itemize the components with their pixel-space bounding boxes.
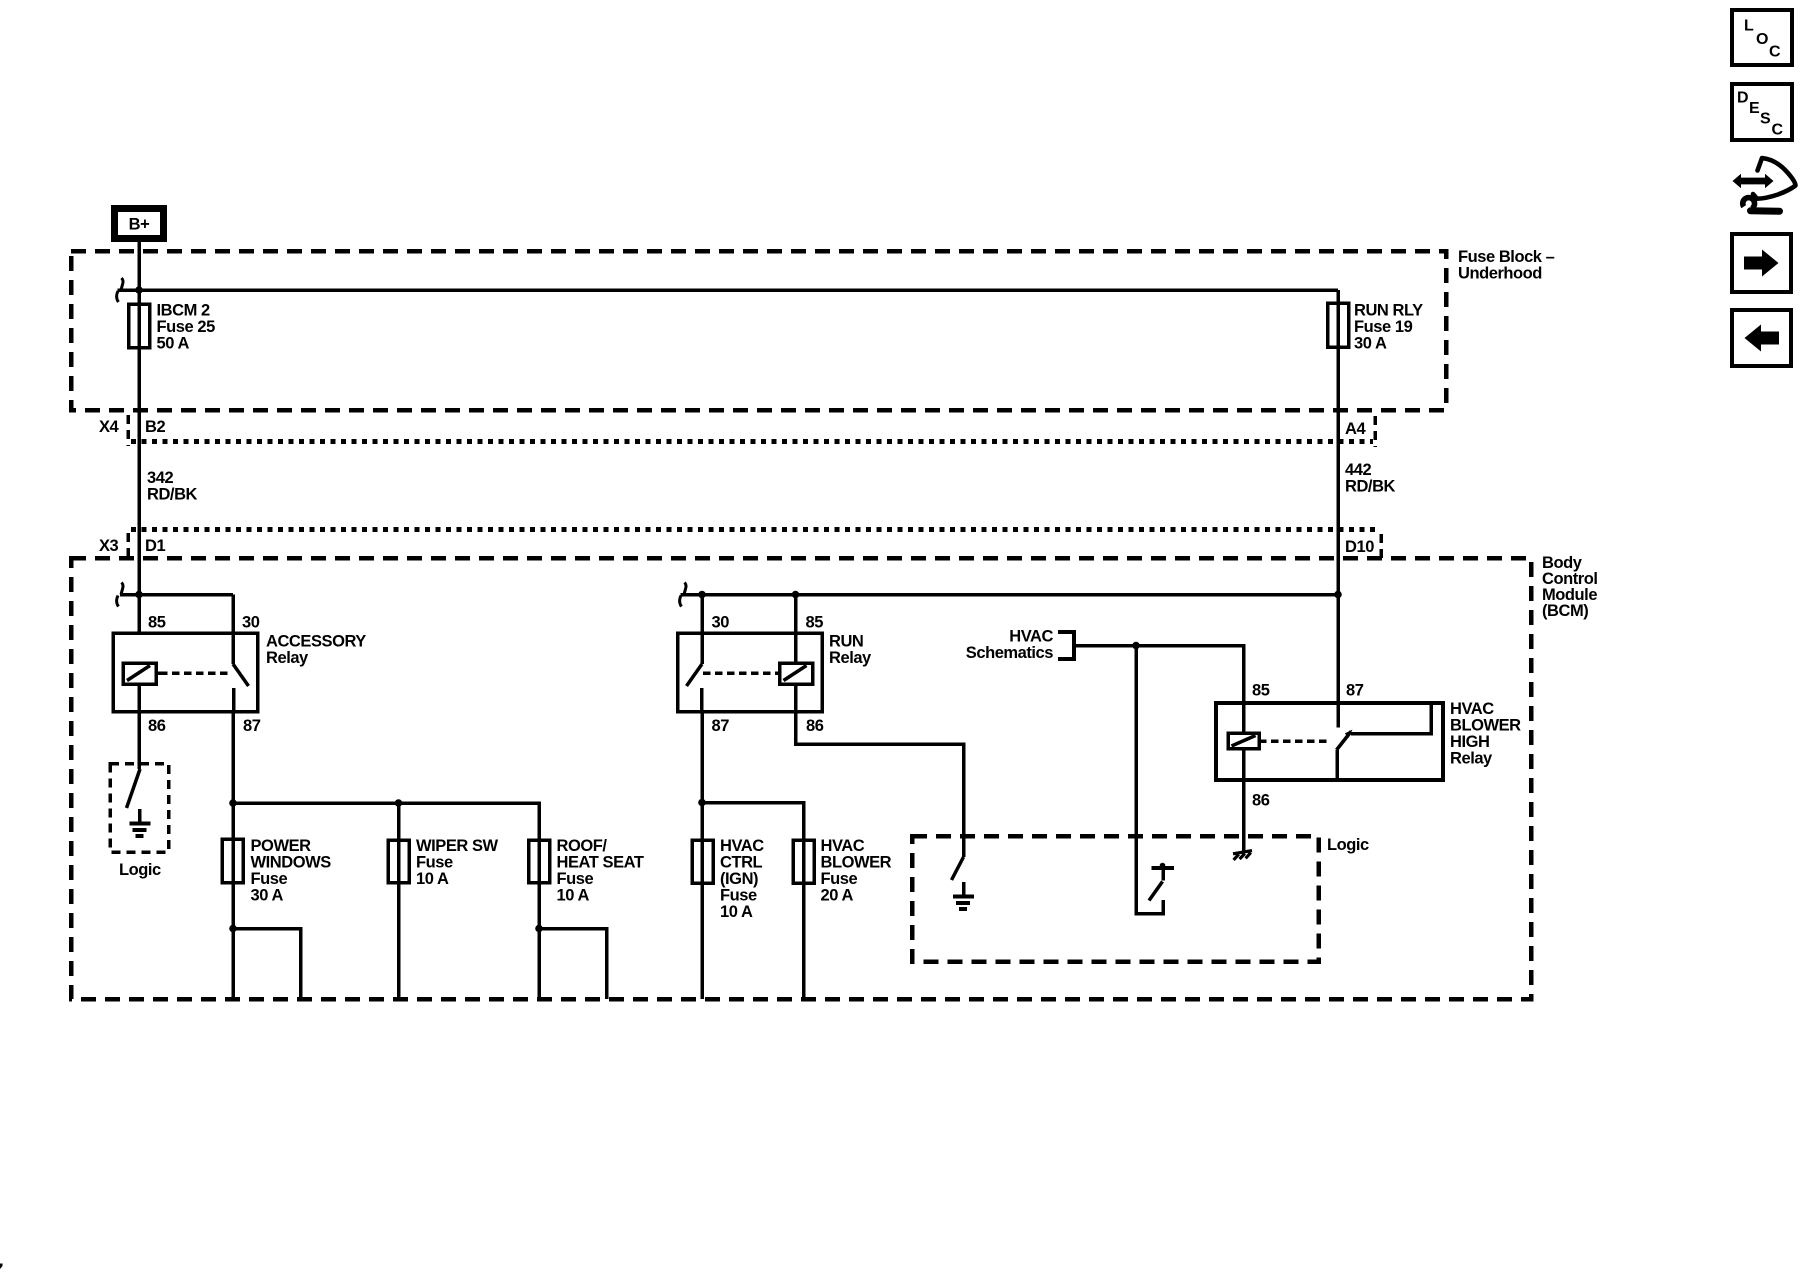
relay K2 coil [780, 663, 813, 684]
wire power windows branch [233, 929, 301, 1000]
chassis ground symbol [1233, 851, 1252, 860]
svg-text:Schematics: Schematics [966, 644, 1053, 662]
svg-text:HVAC: HVAC [821, 837, 865, 855]
wire hvac schematics feed [1074, 646, 1244, 734]
relay K3 switch blade [1337, 732, 1352, 751]
icon DESC button [1732, 84, 1792, 140]
node junction roof branch [535, 925, 543, 933]
off-page hook accessory [117, 583, 123, 607]
svg-text:86: 86 [148, 717, 166, 735]
svg-text:85: 85 [806, 614, 824, 632]
node junction power windows branch [229, 925, 237, 933]
svg-text:RUN RLY: RUN RLY [1354, 302, 1423, 320]
svg-text:BLOWER: BLOWER [821, 854, 892, 872]
logic switch left [127, 769, 141, 808]
svg-text:(IGN): (IGN) [720, 870, 758, 888]
wire K3 pin86 ground [1242, 749, 1246, 852]
relay K3 switch pivot stem [1335, 750, 1339, 780]
wire K1 pin86 to logic [137, 684, 141, 769]
ground symbol logic right [962, 882, 966, 897]
svg-text:342: 342 [147, 469, 173, 487]
node junction pin87/bus [229, 799, 237, 807]
relay K2 fixed contact [700, 688, 704, 712]
svg-text:85: 85 [1252, 682, 1270, 700]
svg-text:E: E [1749, 100, 1760, 117]
wire run pin85 drop [794, 595, 798, 664]
fuse HVAC CTRL [692, 840, 713, 883]
svg-text:C: C [1772, 122, 1784, 139]
fuse HVAC BLOWER [793, 840, 814, 883]
fuse WIPER SW [388, 840, 409, 883]
fuse POWER WINDOWS [222, 839, 243, 883]
svg-text:ROOF/: ROOF/ [557, 837, 608, 855]
svg-text:Fuse: Fuse [557, 870, 594, 888]
logic switch mid-left blade [952, 857, 964, 880]
svg-text:C: C [1769, 44, 1781, 61]
connector D10 separator [1379, 534, 1383, 558]
node junction 442/run feed [1334, 591, 1342, 599]
wire wiper drop [397, 803, 401, 999]
svg-text:30: 30 [242, 614, 260, 632]
svg-text:S: S [1760, 111, 1771, 128]
connector A4 separator [1373, 416, 1377, 447]
wire roof branch [539, 929, 607, 1000]
wire run feed horizontal [681, 593, 1339, 597]
wire main feed horizontal [118, 288, 1339, 292]
svg-text:IBCM 2: IBCM 2 [157, 302, 210, 320]
wire power windows drop [231, 803, 235, 929]
svg-text:HVAC: HVAC [1009, 628, 1053, 646]
svg-text:HVAC: HVAC [720, 837, 764, 855]
wire logic mid drop [1136, 646, 1163, 914]
icon schematic nav scribble [1733, 174, 1774, 188]
wire run pin30 drop [700, 595, 704, 665]
svg-text:Fuse: Fuse [720, 887, 757, 905]
svg-text:D10: D10 [1345, 538, 1374, 556]
relay K3 HVAC BLOWER HIGH box [1216, 703, 1443, 780]
icon wrench [1743, 198, 1755, 209]
relay K1 switch blade [233, 664, 249, 686]
icon next arrow button [1732, 234, 1791, 292]
svg-text:50 A: 50 A [157, 335, 190, 353]
connector X3 separator [126, 533, 130, 558]
wire roof drop [537, 839, 541, 929]
logic switch mid tick [1152, 866, 1175, 870]
svg-text:D1: D1 [145, 537, 165, 555]
svg-text:30: 30 [712, 614, 730, 632]
svg-text:87: 87 [243, 717, 261, 735]
wire circuit 342 vertical [137, 290, 141, 633]
logic box right [912, 836, 1319, 962]
svg-text:O: O [1756, 31, 1768, 48]
svg-text:A4: A4 [1345, 420, 1366, 438]
node junction 342/accessory [135, 591, 143, 599]
relay K3 contact to top [1351, 703, 1431, 734]
relay K2 switch blade [687, 664, 703, 686]
svg-text:HIGH: HIGH [1450, 733, 1489, 751]
svg-text:POWER: POWER [251, 837, 312, 855]
wire K2 pin86 to logic [796, 684, 964, 857]
svg-text:442: 442 [1345, 461, 1371, 479]
svg-text:WIPER SW: WIPER SW [416, 837, 499, 855]
ground symbol logic left [138, 809, 142, 824]
svg-text:D: D [1737, 90, 1748, 107]
relay K1 ACCESSORY box [113, 633, 258, 712]
icon LOC button [1732, 10, 1792, 65]
node junction logic feed [1132, 642, 1140, 650]
off-page hook at B+ junction [117, 278, 123, 302]
wire accessory pin30 drop [231, 595, 235, 665]
wire circuit 442 vertical [1336, 290, 1340, 728]
wire hvac fuse bus [702, 803, 804, 841]
icon back arrow button [1732, 310, 1791, 366]
svg-text:CTRL: CTRL [720, 854, 763, 872]
relay K1 fixed contact [232, 688, 236, 712]
relay K3 coil link dashed [1259, 739, 1331, 743]
connector row X3 dotted line [131, 527, 1379, 532]
svg-text:Fuse 19: Fuse 19 [1354, 318, 1413, 336]
wire accessory feed horizontal [120, 593, 233, 597]
svg-text:10 A: 10 A [557, 887, 590, 905]
fuse block underhood box [71, 251, 1446, 410]
svg-text:86: 86 [806, 717, 824, 735]
logic switch mid blade [1149, 882, 1163, 901]
relay K2 RUN box [678, 633, 823, 712]
svg-text:WINDOWS: WINDOWS [251, 854, 332, 872]
svg-text:RD/BK: RD/BK [1345, 478, 1396, 496]
fuse ROOF/HEAT SEAT [529, 840, 550, 883]
svg-text:87: 87 [712, 717, 730, 735]
node junction hvac bus [698, 799, 706, 807]
wire K2 pin87 down [700, 712, 704, 803]
node junction run pin85 [792, 591, 800, 599]
body control module box [71, 558, 1531, 999]
svg-text:B+: B+ [129, 216, 150, 234]
fuse F25 IBCM 2 [129, 304, 150, 348]
wire K1 pin87 down [231, 712, 235, 804]
svg-text:Fuse 25: Fuse 25 [157, 318, 216, 336]
svg-text:Relay: Relay [829, 649, 872, 667]
wire fuse bus left [233, 803, 539, 839]
svg-text:Fuse: Fuse [821, 870, 858, 888]
wire power windows to edge [231, 929, 235, 1000]
svg-text:Fuse: Fuse [416, 854, 453, 872]
svg-text:86: 86 [1252, 792, 1270, 810]
svg-text:X4: X4 [99, 418, 120, 436]
node junction B+ feed [135, 286, 143, 294]
svg-text:HVAC: HVAC [1450, 700, 1494, 718]
svg-text:L: L [1744, 18, 1754, 35]
svg-text:RUN: RUN [829, 633, 863, 651]
svg-text:10 A: 10 A [720, 903, 753, 921]
svg-text:Relay: Relay [266, 649, 309, 667]
svg-text:Logic: Logic [1327, 836, 1369, 854]
connector X4 separator [126, 415, 130, 446]
wire hvac ctrl drop [700, 803, 704, 1000]
relay K3 coil [1228, 733, 1259, 749]
off-page bracket [1058, 632, 1074, 659]
node junction wiper bus [395, 799, 403, 807]
B+ terminal [115, 209, 164, 239]
svg-text:RD/BK: RD/BK [147, 486, 198, 504]
svg-text:BLOWER: BLOWER [1450, 717, 1521, 735]
logic box left [110, 764, 169, 853]
svg-text:HEAT SEAT: HEAT SEAT [557, 854, 644, 872]
relay K1 coil link dashed [156, 671, 160, 675]
svg-text:B2: B2 [145, 418, 165, 436]
svg-text:85: 85 [148, 614, 166, 632]
svg-text:87: 87 [1346, 682, 1364, 700]
svg-text:20 A: 20 A [821, 887, 854, 905]
wire hvac blower drop [802, 840, 806, 999]
wire B+ stem [137, 242, 141, 290]
svg-text:Fuse: Fuse [251, 870, 288, 888]
relay K1 coil [123, 663, 156, 684]
svg-text:30 A: 30 A [251, 887, 284, 905]
svg-text:Relay: Relay [1450, 750, 1493, 768]
node junction run pin30 [698, 591, 706, 599]
svg-text:X3: X3 [99, 537, 119, 555]
svg-text:Fuse Block –: Fuse Block – [1458, 248, 1555, 266]
wire roof to edge [537, 929, 541, 1000]
svg-text:Logic: Logic [119, 861, 161, 879]
svg-text:(BCM): (BCM) [1542, 602, 1588, 620]
connector row X4 dotted line [131, 439, 1373, 444]
page corner mark [0, 1264, 3, 1270]
svg-text:30 A: 30 A [1354, 335, 1387, 353]
off-page hook run [680, 583, 686, 607]
relay K2 coil link dashed [776, 671, 780, 675]
svg-text:Underhood: Underhood [1458, 265, 1542, 283]
svg-text:10 A: 10 A [416, 870, 449, 888]
svg-text:ACCESSORY: ACCESSORY [266, 633, 366, 651]
fuse F19 RUN RLY [1328, 303, 1349, 347]
